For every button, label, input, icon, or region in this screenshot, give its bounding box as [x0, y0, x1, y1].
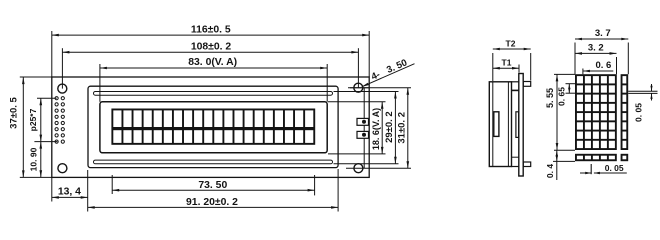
adjacent character column of dots	[621, 74, 629, 150]
adjacent character row of dots	[575, 154, 617, 161]
glass edge top pill	[94, 92, 333, 96]
svg-text:5. 55: 5. 55	[545, 88, 555, 108]
dimension 108±0.2	[62, 51, 358, 53]
extension lines top	[51, 31, 53, 77]
extension lines left	[20, 76, 52, 78]
dimension 3.2	[575, 52, 617, 54]
dimension 83.0 (V.A)	[100, 67, 327, 69]
dimension p2.54*7 pin pitch	[40, 98, 42, 141]
dimension 18.6 (V.A)	[381, 102, 383, 154]
svg-text:37±0. 5: 37±0. 5	[9, 96, 20, 128]
svg-text:73. 50: 73. 50	[198, 180, 227, 191]
svg-text:29±0. 2: 29±0. 2	[384, 111, 395, 143]
side view body	[489, 82, 511, 167]
svg-text:108±0. 2: 108±0. 2	[191, 42, 232, 53]
svg-text:13, 4: 13, 4	[58, 187, 81, 198]
bezel outline	[88, 86, 338, 167]
dimension 91.20±0.2	[88, 206, 338, 208]
svg-text:116±0. 5: 116±0. 5	[191, 25, 231, 36]
svg-text:31±0. 2: 31±0. 2	[397, 112, 408, 144]
side view step lines	[512, 81, 519, 83]
pin holes 2x8	[55, 97, 58, 100]
dimension 0.05 right	[628, 90, 657, 92]
dimension T2	[492, 53, 494, 81]
svg-text:3. 2: 3. 2	[588, 43, 604, 54]
svg-text:0. 65: 0. 65	[557, 87, 567, 106]
character block grid 20x2	[111, 109, 315, 145]
dimension T1	[518, 65, 520, 73]
svg-text:T1: T1	[502, 57, 512, 67]
dimension 73.50	[112, 189, 314, 191]
svg-text:T2: T2	[506, 39, 516, 49]
dimension 0.6	[582, 69, 584, 75]
side view top pin	[523, 82, 531, 87]
svg-text:18. 6(V. A): 18. 6(V. A)	[371, 108, 381, 150]
dot matrix 5x8 grid	[575, 74, 617, 150]
glass edge bottom pill	[94, 160, 333, 164]
svg-text:p25*7: p25*7	[28, 108, 38, 131]
svg-text:0. 4: 0. 4	[545, 164, 555, 178]
extension lines bottom	[51, 177, 53, 201]
adjacent corner dot	[621, 154, 629, 161]
side view bottom pin	[523, 162, 531, 167]
dimension 3.7	[575, 38, 628, 40]
dimension 37±0.5	[22, 77, 24, 177]
dimension 31±0.2	[407, 88, 409, 169]
side view pcb plate	[519, 74, 523, 177]
side view inner bar	[516, 112, 519, 138]
svg-text:4-: 4-	[370, 69, 382, 82]
detail extension lines	[574, 43, 576, 75]
svg-text:10. 90: 10. 90	[28, 147, 38, 171]
dimension 0.65	[566, 83, 576, 85]
extension lines right	[328, 101, 386, 103]
mounting hole top-left	[58, 84, 67, 93]
leader 4-Ø3.50 to mounting hole	[362, 64, 415, 87]
backlight pin A	[357, 118, 369, 125]
mounting hole bottom-right with centerlines	[354, 164, 363, 173]
backlight terminal edge line	[364, 87, 369, 89]
dimension 0.4	[553, 160, 575, 162]
mounting hole bottom-left	[58, 164, 67, 173]
svg-text:0. 05: 0. 05	[605, 163, 624, 173]
dimension 10.90	[40, 142, 42, 178]
dimension 116±0.5	[52, 34, 369, 36]
svg-text:0. 05: 0. 05	[634, 103, 644, 122]
svg-text:91. 20±0. 2: 91. 20±0. 2	[186, 197, 238, 208]
svg-text:3. 7: 3. 7	[595, 28, 611, 39]
dimension 29±0.2	[394, 92, 396, 164]
dimension 13,4	[52, 196, 88, 198]
mounting hole top-right with centerlines	[354, 83, 363, 92]
svg-text:83. 0(V. A): 83. 0(V. A)	[188, 57, 237, 68]
dimension 0.05 bottom	[590, 164, 592, 174]
side view slot	[494, 112, 499, 137]
dimension 5.55	[554, 73, 575, 75]
PCB outline front view	[52, 77, 369, 177]
svg-text:0. 6: 0. 6	[595, 60, 611, 71]
display window (visible area)	[100, 102, 327, 153]
backlight pin K	[357, 131, 369, 138]
svg-text:3. 50: 3. 50	[385, 57, 409, 76]
